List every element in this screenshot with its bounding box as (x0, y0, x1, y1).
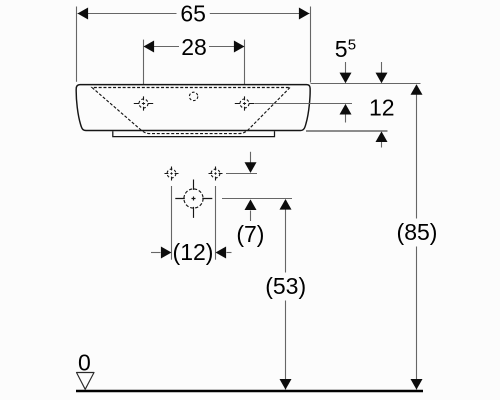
reference line D (fixing hole level) (226, 173, 257, 175)
dimension (53): label (266, 273, 307, 301)
dimension (7): upper arrow (250, 152, 252, 163)
reference line C (basin bottom level) (306, 130, 388, 132)
dimension 65: extension line right (310, 7, 312, 83)
overflow hole (dashed circle) (189, 92, 197, 100)
dimension 65: dimension line (78, 13, 177, 15)
svg-text:(12): (12) (173, 239, 214, 265)
dimension 12: upper arrow (381, 62, 383, 73)
dimension (85): upper arrow (411, 84, 423, 95)
dimension (53): lower arrow (280, 379, 292, 390)
dimension 28: extension line right (244, 40, 246, 93)
dimension 65: extension line left (76, 7, 78, 82)
dimension 5.5: upper arrow (345, 62, 347, 73)
reference line A (rim top level) (311, 83, 421, 85)
fixing hole left (center mark) (165, 167, 179, 181)
dimension (12): right arrow (227, 252, 232, 254)
dimension 28: arrowhead right (234, 41, 245, 53)
floor line (76, 390, 423, 393)
svg-text:28: 28 (181, 34, 207, 60)
svg-text:5: 5 (348, 36, 356, 53)
svg-text:(7): (7) (236, 221, 264, 247)
tap hole left (center mark) (134, 96, 153, 110)
drain hole (center mark, large) (175, 180, 212, 218)
dimension (53): vertical line (285, 200, 287, 390)
apron / shelf under basin (113, 131, 275, 136)
dimension 28: extension line left (143, 40, 145, 93)
svg-text:12: 12 (369, 95, 395, 121)
dimension (85): label (397, 219, 438, 247)
dimension (53): upper arrow (280, 199, 292, 210)
fixing hole right (center mark) (209, 167, 223, 181)
dimension 5.5: lower arrow (345, 115, 347, 123)
dimension 28: arrowhead left (144, 41, 155, 53)
reference line E (drain level) (222, 198, 292, 200)
dimension (12): extension line left (171, 186, 173, 260)
tap hole right (center mark) (235, 96, 254, 110)
svg-text:65: 65 (180, 0, 206, 26)
dimension 12: lower arrow (381, 142, 383, 148)
basin inner bowl (hidden edge, dashed) (92, 88, 290, 134)
svg-text:(85): (85) (397, 219, 438, 245)
svg-text:0: 0 (78, 349, 91, 375)
dimension (7): lower arrow (250, 211, 252, 222)
svg-text:(53): (53) (265, 273, 306, 299)
dimension 65: arrowhead right (299, 8, 310, 20)
washbasin outline (76, 85, 310, 131)
dimension (85): vertical line (416, 85, 418, 390)
reference line B (tap hole level) (255, 103, 353, 105)
dimension (12): left arrow (151, 252, 161, 254)
dimension (12): extension line right (215, 186, 217, 260)
dimension 65: arrowhead left (78, 8, 89, 20)
dimension 28: dimension line (144, 46, 180, 48)
dimension (85): lower arrow (411, 379, 423, 390)
datum 0: triangle symbol (77, 373, 95, 390)
svg-text:5: 5 (335, 36, 348, 62)
